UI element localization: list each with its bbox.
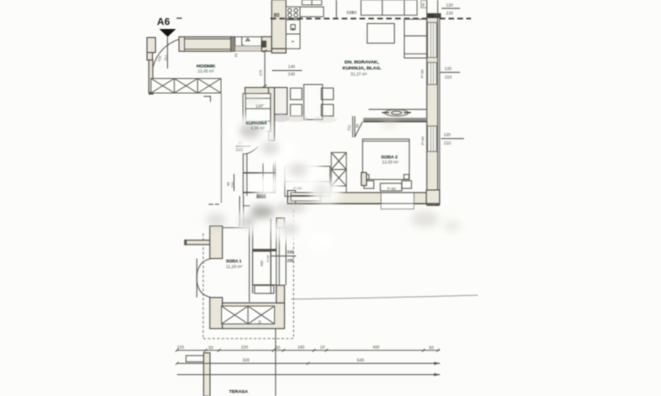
- svg-text:120: 120: [445, 66, 453, 71]
- svg-text:P=80: P=80: [387, 187, 396, 191]
- svg-text:210: 210: [236, 147, 244, 152]
- svg-text:12,00 m²: 12,00 m²: [382, 159, 399, 164]
- svg-text:90: 90: [422, 3, 426, 7]
- svg-text:50: 50: [428, 13, 434, 19]
- svg-text:13,45 m²: 13,45 m²: [198, 69, 215, 74]
- svg-text:210: 210: [445, 75, 453, 80]
- svg-text:90: 90: [226, 182, 230, 186]
- svg-text:4,36 m²: 4,36 m²: [251, 125, 266, 130]
- svg-text:120: 120: [446, 2, 454, 7]
- svg-text:590: 590: [347, 10, 355, 15]
- svg-text:140: 140: [288, 64, 296, 69]
- svg-text:P=90: P=90: [421, 70, 425, 79]
- svg-text:210: 210: [446, 10, 454, 15]
- svg-text:P=80: P=80: [294, 187, 303, 191]
- svg-text:240: 240: [288, 72, 296, 77]
- svg-text:A6: A6: [157, 17, 170, 28]
- svg-text:TERASA: TERASA: [229, 389, 249, 394]
- svg-text:400: 400: [373, 344, 381, 349]
- svg-text:20: 20: [234, 53, 239, 58]
- svg-text:11,28 m²: 11,28 m²: [226, 264, 243, 269]
- svg-text:P=90: P=90: [266, 255, 270, 262]
- svg-text:210: 210: [444, 141, 452, 146]
- svg-text:120: 120: [444, 132, 452, 137]
- svg-text:285: 285: [287, 258, 295, 263]
- svg-text:10: 10: [320, 344, 325, 349]
- svg-text:330: 330: [287, 249, 295, 254]
- svg-text:SOBA 1: SOBA 1: [226, 259, 242, 264]
- svg-text:210: 210: [231, 182, 235, 188]
- svg-text:480: 480: [260, 261, 264, 267]
- svg-text:31,27 m²: 31,27 m²: [351, 71, 368, 76]
- svg-text:320: 320: [243, 358, 251, 363]
- svg-text:50: 50: [209, 345, 214, 350]
- svg-text:90: 90: [355, 124, 360, 129]
- svg-text:160: 160: [298, 344, 306, 349]
- svg-text:215: 215: [177, 344, 185, 349]
- svg-text:DN. BORAVAK,: DN. BORAVAK,: [345, 60, 380, 66]
- svg-text:120°: 120°: [256, 104, 265, 109]
- svg-text:220: 220: [241, 344, 249, 349]
- svg-text:50: 50: [258, 320, 262, 324]
- svg-text:50: 50: [429, 345, 434, 350]
- svg-text:50: 50: [276, 345, 281, 350]
- svg-text:640: 640: [357, 358, 365, 363]
- svg-text:175: 175: [259, 70, 263, 76]
- svg-text:P=90: P=90: [421, 137, 425, 146]
